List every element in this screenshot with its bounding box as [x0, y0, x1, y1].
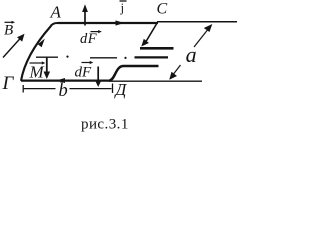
- svg-text:C: C: [157, 0, 168, 17]
- svg-text:B: B: [4, 23, 13, 39]
- svg-text:dF: dF: [75, 65, 93, 81]
- svg-text:Г: Г: [2, 73, 15, 94]
- svg-text:b: b: [59, 81, 68, 101]
- svg-text:М: М: [29, 62, 45, 81]
- svg-text:Д: Д: [114, 80, 128, 99]
- svg-text:A: A: [50, 2, 62, 21]
- svg-text:dF: dF: [80, 31, 97, 47]
- svg-text:рис.3.1: рис.3.1: [81, 117, 129, 133]
- svg-text:a: a: [186, 42, 197, 67]
- svg-text:j: j: [120, 0, 125, 15]
